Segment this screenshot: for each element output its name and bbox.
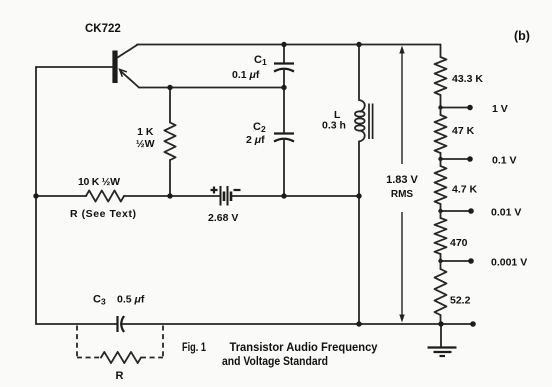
label 0.001 V xyxy=(491,257,527,269)
svg-text:1.83 V: 1.83 V xyxy=(386,174,418,186)
tap 0.001V xyxy=(438,258,474,264)
caption line 2 xyxy=(222,354,328,368)
label 2 uf xyxy=(246,134,265,146)
label 1K 1/2W xyxy=(136,126,155,150)
svg-text:2.68 V: 2.68 V xyxy=(208,212,238,224)
svg-text:C3: C3 xyxy=(93,294,106,307)
label 4.7 K xyxy=(452,184,478,196)
svg-text:4.7 K: 4.7 K xyxy=(452,184,478,196)
label 10K 1/2W xyxy=(78,176,120,188)
svg-text:0.3 h: 0.3 h xyxy=(322,120,346,132)
svg-text:43.3 K: 43.3 K xyxy=(452,73,483,85)
svg-text:47 K: 47 K xyxy=(452,125,475,137)
label RMS xyxy=(391,189,414,200)
svg-text:RMS: RMS xyxy=(391,189,414,200)
capacitor C1 0.1uf xyxy=(274,45,294,88)
wire top rail (collector to divider) xyxy=(137,44,441,46)
svg-text:and Voltage Standard: and Voltage Standard xyxy=(222,354,328,368)
resistor R (dashed bypass) xyxy=(77,326,163,364)
label 1 V xyxy=(492,103,508,115)
svg-text:Fig. 1: Fig. 1 xyxy=(182,340,206,354)
svg-text:0.1 μf: 0.1 μf xyxy=(232,69,260,81)
capacitor C3 0.5uf xyxy=(118,316,125,332)
label R (See Text) xyxy=(70,208,136,220)
svg-text:R: R xyxy=(116,370,124,382)
label (b) xyxy=(514,29,530,43)
svg-text:10 K ½W: 10 K ½W xyxy=(78,176,120,188)
svg-text:2 μf: 2 μf xyxy=(246,134,265,146)
label 0.3 h xyxy=(322,120,346,132)
label L xyxy=(334,109,341,121)
label 52.2 xyxy=(450,295,471,307)
label 43.3 K xyxy=(452,73,483,85)
label 0.5 uf xyxy=(117,294,145,306)
label 1.83 V xyxy=(386,174,418,186)
wire left vertical xyxy=(35,67,37,324)
tap 0.01V xyxy=(438,208,474,214)
wire emitter rail y=87.5 xyxy=(139,87,284,89)
svg-text:0.01 V: 0.01 V xyxy=(491,207,521,219)
label C1 xyxy=(254,54,267,67)
wire bottom rail xyxy=(36,323,473,325)
label C3 xyxy=(93,294,106,307)
label CK722 xyxy=(85,23,121,35)
svg-text:0.1 V: 0.1 V xyxy=(492,155,517,167)
svg-text:1 V: 1 V xyxy=(492,103,508,115)
ground xyxy=(428,324,457,356)
label 2.68 V xyxy=(208,212,238,224)
capacitor C2 2uf xyxy=(274,88,294,197)
svg-text:CK722: CK722 xyxy=(85,23,121,35)
transistor Q1 CK722 (PNP) xyxy=(112,45,139,88)
svg-text:52.2: 52.2 xyxy=(450,295,471,307)
svg-text:0.5 μf: 0.5 μf xyxy=(117,294,145,306)
dimension arrow 1.83V RMS xyxy=(399,46,404,323)
svg-text:C2: C2 xyxy=(253,121,266,134)
wire divider top corner xyxy=(440,45,442,58)
label 470 xyxy=(450,237,468,249)
svg-text:½W: ½W xyxy=(136,138,155,150)
tap 1V xyxy=(438,105,473,111)
resistor 1K 1/2W xyxy=(164,88,175,197)
label 47 K xyxy=(452,125,475,137)
svg-text:R (See Text): R (See Text) xyxy=(70,208,136,220)
resistor 4.7K xyxy=(435,159,447,211)
terminal output bottom xyxy=(470,321,476,327)
inductor L 0.3h with core xyxy=(355,45,373,325)
svg-text:Transistor Audio Frequency: Transistor Audio Frequency xyxy=(230,340,378,354)
resistor 43.3K xyxy=(435,57,447,108)
resistor 47K xyxy=(435,108,447,160)
caption line 1 xyxy=(182,340,378,354)
label 0.1 V xyxy=(492,155,517,167)
label R xyxy=(116,370,124,382)
wire middle rail y=196 xyxy=(36,195,359,197)
battery B1 2.68V xyxy=(211,186,241,206)
svg-text:1 K: 1 K xyxy=(137,126,154,138)
svg-text:0.001 V: 0.001 V xyxy=(491,257,527,269)
svg-text:(b): (b) xyxy=(514,29,530,43)
resistor 470 xyxy=(435,211,447,261)
label 0.1 uf xyxy=(232,69,260,81)
label C2 xyxy=(253,121,266,134)
tap 0.1V xyxy=(438,156,473,162)
svg-text:470: 470 xyxy=(450,237,468,249)
svg-text:C1: C1 xyxy=(254,54,267,67)
resistor R 10K 1/2W xyxy=(86,190,124,201)
resistor 52.2 xyxy=(435,261,447,324)
wire base lead xyxy=(36,66,112,68)
label 0.01 V xyxy=(491,207,521,219)
